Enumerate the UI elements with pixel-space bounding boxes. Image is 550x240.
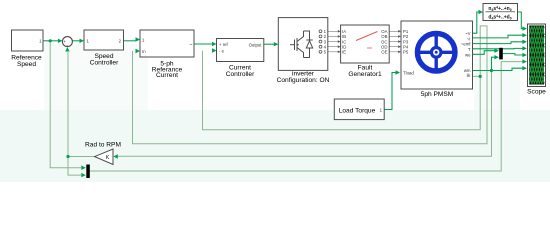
svg-text:Controller: Controller (90, 59, 119, 66)
svg-text:5ph PMSM: 5ph PMSM (421, 91, 454, 98)
svg-text:Current: Current (156, 72, 178, 79)
svg-text:Speed: Speed (17, 61, 36, 68)
svg-text:Controller: Controller (226, 71, 255, 78)
svg-text:wm: wm (464, 68, 471, 73)
svg-text:~emf: ~emf (461, 42, 471, 47)
svg-text:Configuration: ON: Configuration: ON (277, 77, 330, 84)
svg-text:In: In (142, 49, 146, 54)
svg-text:Scope: Scope (527, 89, 546, 96)
svg-text:Generator1: Generator1 (348, 71, 382, 78)
svg-text:Tload: Tload (403, 71, 414, 76)
svg-text:T: T (468, 47, 471, 52)
svg-text:Output: Output (249, 43, 263, 48)
svg-text:Load Torque: Load Torque (339, 108, 376, 115)
svg-text:θr: θr (467, 73, 471, 78)
svg-text:Rad to RPM: Rad to RPM (85, 142, 121, 149)
svg-text:~I: ~I (467, 36, 471, 41)
svg-text:OE: OE (381, 50, 387, 55)
svg-text:IE: IE (342, 50, 346, 55)
svg-text:+ ref: + ref (219, 42, 229, 47)
svg-text:- e: - e (219, 49, 225, 54)
svg-text:~V: ~V (465, 31, 471, 36)
svg-text:K: K (106, 155, 110, 161)
svg-text:we: we (465, 53, 471, 58)
svg-text:~: ~ (189, 42, 192, 48)
svg-text:P5: P5 (403, 50, 409, 55)
